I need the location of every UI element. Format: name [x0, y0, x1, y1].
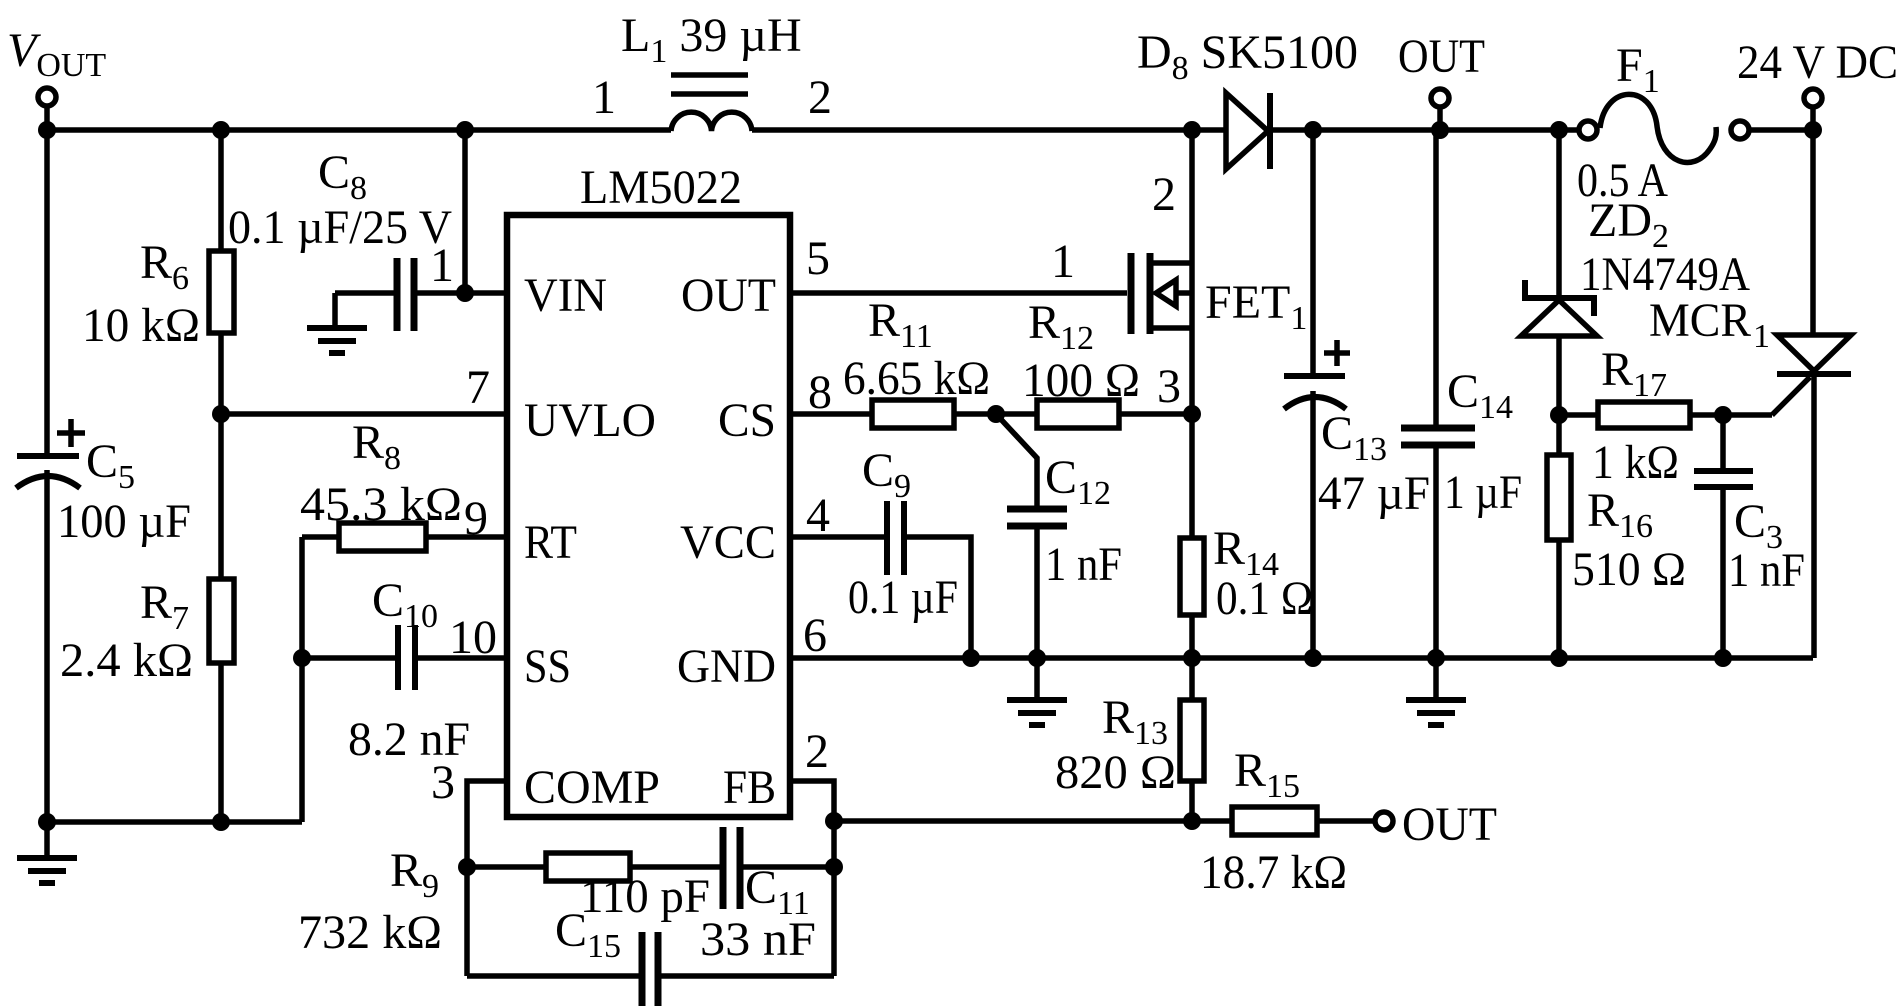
inductor L1 windings — [671, 112, 752, 131]
wire C8 left to ground — [335, 290, 394, 296]
resistor R6 — [218, 130, 224, 251]
capacitor C13 (polarized) — [1310, 130, 1316, 373]
svg-text:VIN: VIN — [524, 269, 607, 322]
svg-text:1 nF: 1 nF — [1045, 538, 1122, 591]
resistor R15 — [1232, 807, 1317, 835]
wire R14 to bus to R13 — [1189, 615, 1195, 700]
wire COMP bottom to C15 — [467, 973, 639, 979]
capacitor C15 — [639, 932, 646, 1006]
wire R15 to OUT terminal — [1317, 818, 1375, 824]
svg-text:6: 6 — [803, 609, 827, 662]
svg-text:732 kΩ: 732 kΩ — [298, 906, 442, 959]
wire fuse to 24V node — [1749, 127, 1813, 133]
wire top bus mid (L1 pin2 to D8 anode) — [752, 127, 1226, 133]
svg-text:RT: RT — [524, 516, 577, 569]
transistor FET1 — [1128, 253, 1135, 334]
wire VOUT stub — [44, 106, 50, 130]
wire bottom-left ground bus — [47, 819, 302, 825]
svg-text:COMP: COMP — [524, 761, 660, 814]
wire C15 to FB bottom — [661, 973, 834, 979]
svg-text:0.1 Ω: 0.1 Ω — [1216, 572, 1313, 625]
node VOUT terminal — [38, 88, 56, 106]
wire COMP node to R9 — [467, 864, 546, 870]
svg-text:1: 1 — [1051, 235, 1075, 288]
svg-text:10: 10 — [449, 611, 497, 664]
capacitor C11 — [720, 827, 727, 909]
svg-text:1: 1 — [1753, 318, 1770, 355]
svg-text:VCC: VCC — [680, 516, 776, 569]
svg-text:45.3 kΩ: 45.3 kΩ — [300, 478, 462, 531]
svg-text:UVLO: UVLO — [524, 394, 656, 447]
wire MCR1 gate — [1772, 377, 1810, 415]
wire FET drain to top bus / source to node 3 — [1189, 130, 1195, 538]
wire top bus right (D8 cathode to fuse) — [1272, 127, 1579, 133]
resistor R13 — [1180, 700, 1204, 781]
svg-text:SS: SS — [524, 640, 571, 693]
ground (C12) — [1034, 658, 1040, 700]
wire FB node to R15 — [834, 818, 1232, 824]
svg-text:110 pF: 110 pF — [580, 870, 710, 923]
resistor R16 — [1556, 415, 1562, 455]
svg-text:CS: CS — [718, 394, 776, 447]
svg-text:47 µF: 47 µF — [1318, 467, 1430, 520]
wire C9 to ground bus — [907, 537, 971, 658]
wire CS pin8 — [790, 411, 872, 417]
capacitor C14 — [1433, 130, 1439, 425]
wire SS pin10 — [302, 655, 395, 661]
svg-text:D8 SK5100: D8 SK5100 — [1137, 26, 1358, 87]
svg-text:LM5022: LM5022 — [580, 161, 742, 214]
resistor R17 — [1559, 412, 1598, 418]
inductor L1 core bars — [671, 72, 748, 78]
svg-text:18.7 kΩ: 18.7 kΩ — [1200, 846, 1347, 899]
wire R9 to C11 — [630, 864, 720, 870]
svg-text:5: 5 — [806, 232, 830, 285]
resistor R8 — [302, 534, 339, 540]
fuse F1 — [1579, 121, 1597, 139]
capacitor C8 — [394, 258, 401, 331]
svg-text:6.65 kΩ: 6.65 kΩ — [843, 352, 990, 405]
capacitor C5 (polarized) — [44, 130, 50, 453]
wire R8 to RT pin9 — [426, 534, 507, 540]
svg-text:OUT: OUT — [1402, 798, 1497, 851]
wire VIN riser from top bus — [462, 130, 468, 293]
svg-text:24 V DC: 24 V DC — [1737, 36, 1898, 89]
svg-text:3: 3 — [431, 756, 455, 809]
svg-text:OUT: OUT — [1398, 30, 1485, 83]
svg-text:2: 2 — [808, 71, 832, 124]
node OUT terminal (top) — [1431, 89, 1449, 107]
wire UVLO pin7 — [221, 411, 507, 417]
svg-text:FB: FB — [723, 761, 776, 814]
svg-text:1 kΩ: 1 kΩ — [1592, 436, 1679, 489]
ground (C8) — [307, 325, 367, 331]
resistor R9 — [546, 853, 630, 881]
wire R11 to R12 — [954, 411, 1037, 417]
svg-text:0.1 µF: 0.1 µF — [848, 571, 958, 624]
capacitor C9 — [884, 501, 890, 575]
wire OUT pin5 to FET gate — [790, 290, 1127, 296]
capacitor C12 — [996, 414, 1037, 506]
junction dots — [38, 121, 56, 139]
svg-text:1 µF: 1 µF — [1444, 466, 1522, 519]
node OUT terminal (right) — [1375, 812, 1393, 830]
svg-text:4: 4 — [806, 489, 830, 542]
resistor R12 — [1037, 400, 1119, 428]
wire COMP pin3 — [467, 781, 507, 976]
svg-text:0.1 µF/25 V: 0.1 µF/25 V — [228, 201, 452, 254]
svg-text:10 kΩ: 10 kΩ — [82, 299, 200, 352]
wire FB pin2 — [790, 781, 834, 976]
op-amp U1 LM5022 box — [507, 215, 790, 817]
svg-text:820 Ω: 820 Ω — [1055, 746, 1176, 799]
svg-text:1: 1 — [592, 71, 616, 124]
svg-text:2: 2 — [805, 725, 829, 778]
svg-text:2.4 kΩ: 2.4 kΩ — [60, 634, 193, 687]
svg-text:33 nF: 33 nF — [700, 913, 816, 966]
svg-text:510 Ω: 510 Ω — [1572, 543, 1686, 596]
diode D8 — [1226, 93, 1268, 169]
capacitor C10 — [395, 625, 401, 690]
svg-text:2: 2 — [1152, 168, 1176, 221]
thyristor MCR1 — [1810, 130, 1816, 335]
svg-text:3: 3 — [1157, 360, 1181, 413]
svg-text:1: 1 — [430, 239, 454, 292]
svg-text:MCR: MCR — [1649, 294, 1751, 347]
svg-text:L1 39 µH: L1 39 µH — [621, 9, 802, 70]
wire VCC pin4 — [790, 534, 884, 540]
zener diode ZD2 — [1556, 130, 1562, 297]
svg-text:9: 9 — [464, 492, 488, 545]
svg-text:8: 8 — [808, 366, 832, 419]
capacitor C3 — [1720, 415, 1726, 468]
wire top bus left (VOUT to L1 pin1) — [47, 127, 671, 133]
svg-text:100 Ω: 100 Ω — [1022, 354, 1140, 407]
svg-text:7: 7 — [466, 361, 490, 414]
resistor R11 — [872, 400, 954, 428]
resistor R14 — [1180, 538, 1204, 615]
ground (bottom left) — [44, 822, 50, 858]
wire GND pin6 bus — [790, 655, 1813, 661]
svg-text:OUT: OUT — [681, 269, 776, 322]
wire R12 to node 3 — [1119, 411, 1192, 417]
wire C8 to VIN — [417, 290, 507, 296]
wire C11 to FB riser — [743, 864, 834, 870]
wire R13 to FB node — [1189, 781, 1195, 821]
node 24V DC terminal — [1804, 89, 1822, 107]
ground (main bus) — [1433, 658, 1439, 700]
svg-text:1 nF: 1 nF — [1728, 544, 1805, 597]
wire R8/C10 riser to ground bus — [299, 537, 305, 822]
svg-text:GND: GND — [677, 640, 776, 693]
resistor R7 — [218, 414, 224, 579]
svg-text:100 µF: 100 µF — [57, 495, 191, 548]
